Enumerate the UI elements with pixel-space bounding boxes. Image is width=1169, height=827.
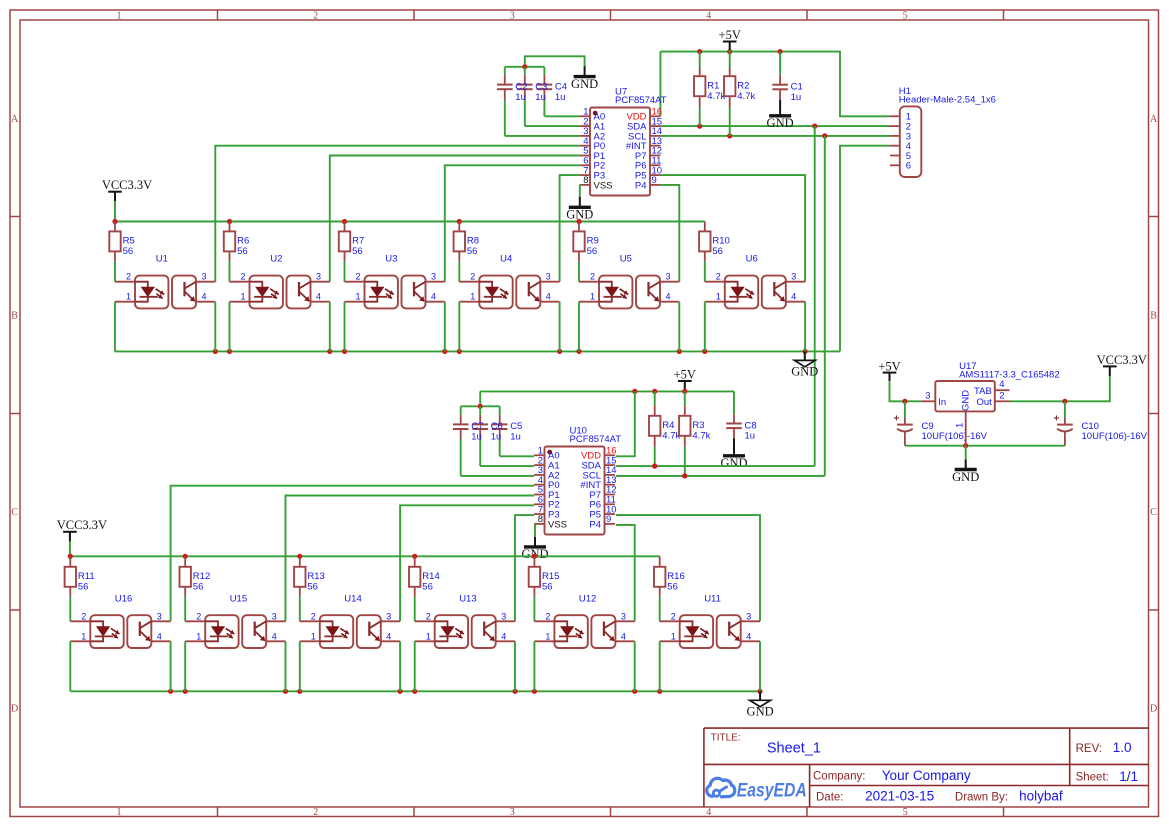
resistor R5 (109, 222, 134, 282)
svg-text:In: In (938, 397, 946, 408)
svg-text:4: 4 (746, 631, 751, 641)
svg-text:A: A (1150, 114, 1158, 125)
resistor R12 (180, 556, 211, 621)
node junction bottom rail2 col6 (657, 689, 662, 694)
wire C7 to A2 U10 (461, 475, 534, 477)
power VCC3.3V U17 (1097, 353, 1147, 376)
svg-text:D: D (1150, 704, 1157, 715)
svg-text:5: 5 (903, 807, 908, 818)
svg-text:+: + (893, 413, 899, 424)
svg-text:1: 1 (545, 631, 550, 641)
svg-text:3: 3 (202, 272, 207, 282)
resistor R1 (694, 52, 726, 127)
svg-text:4: 4 (316, 292, 321, 302)
svg-text:C6: C6 (491, 421, 503, 432)
node junction bottom rail2 emitter4 (512, 689, 517, 694)
svg-text:3: 3 (501, 611, 506, 621)
svg-text:C: C (1150, 507, 1157, 518)
svg-text:2: 2 (470, 272, 475, 282)
transistor U6 optocoupler (705, 254, 805, 309)
svg-text:1.0: 1.0 (1113, 740, 1132, 755)
svg-text:1: 1 (117, 807, 122, 818)
resistor R4 (649, 391, 681, 466)
ground GND under C1 (767, 100, 794, 130)
svg-text:2: 2 (671, 611, 676, 621)
svg-text:R13: R13 (307, 571, 324, 582)
wire U11 cathode to rail (659, 641, 661, 691)
svg-text:1u: 1u (471, 432, 482, 443)
wire U7 VSS to ground (579, 185, 581, 197)
node junction rail R5 (112, 219, 117, 224)
node junction SCL drop (822, 133, 827, 138)
node junction bottom rail2 emitter6 (757, 689, 762, 694)
svg-text:Header-Male-2.54_1x6: Header-Male-2.54_1x6 (899, 95, 996, 106)
svg-text:2: 2 (313, 10, 318, 21)
svg-text:C3: C3 (535, 81, 547, 92)
node junction bottom rail U5 emitter (677, 349, 682, 354)
svg-text:GND: GND (952, 470, 979, 484)
svg-text:10UF(106)-16V: 10UF(106)-16V (922, 431, 988, 442)
svg-text:56: 56 (352, 246, 363, 257)
svg-text:1: 1 (126, 292, 131, 302)
svg-text:3: 3 (746, 611, 751, 621)
resistor R13 (294, 556, 325, 621)
svg-text:1: 1 (716, 292, 721, 302)
wire SDA vertical to lower section (814, 126, 816, 466)
resistor R9 (573, 222, 598, 282)
svg-text:4.7k: 4.7k (707, 91, 725, 102)
wire U10 P2 to opto collector (400, 505, 534, 621)
svg-text:2: 2 (716, 272, 721, 282)
ground GND U7 VSS (566, 197, 593, 222)
resistor R7 (339, 222, 364, 282)
svg-text:3: 3 (316, 272, 321, 282)
node junction R3 bottom (682, 473, 687, 478)
svg-text:U13: U13 (459, 594, 476, 605)
resistor R2 (724, 52, 756, 136)
EasyEDA logo (707, 778, 807, 801)
svg-text:Sheet:: Sheet: (1076, 772, 1109, 784)
wire U6 cathode to rail (704, 302, 706, 352)
transistor U11 optocoupler (660, 594, 760, 649)
svg-text:3: 3 (510, 807, 515, 818)
svg-text:2: 2 (311, 611, 316, 621)
wire U11 emitter to rail (759, 641, 761, 691)
svg-text:R11: R11 (78, 571, 95, 582)
wire U10 P1 to opto collector (286, 496, 535, 622)
node junction bottom rail2 emitter1 (168, 689, 173, 694)
wire U15 cathode to rail (184, 641, 186, 691)
svg-text:U6: U6 (746, 254, 758, 265)
title block (704, 728, 1149, 807)
svg-text:2: 2 (81, 611, 86, 621)
svg-text:3: 3 (666, 272, 671, 282)
svg-text:56: 56 (422, 582, 433, 593)
wire VDD U7 pin16 (659, 52, 661, 117)
svg-text:1: 1 (470, 292, 475, 302)
ground GND row2 rail (747, 691, 774, 718)
svg-text:U2: U2 (270, 254, 282, 265)
node junction R2 top (727, 49, 732, 54)
svg-text:3: 3 (546, 272, 551, 282)
node junction R2 bottom SCL (727, 133, 732, 138)
wire SCL U7 pin14 to H1 pin3 (660, 135, 890, 137)
svg-text:1: 1 (356, 292, 361, 302)
svg-text:2: 2 (196, 611, 201, 621)
wire U10 VSS to ground (533, 525, 536, 537)
node junction bottom rail2 col3 (297, 689, 302, 694)
op-amp U7 PCF8574AT (580, 86, 667, 195)
wire U2 emitter to rail (329, 302, 331, 352)
transistor U12 optocoupler (534, 594, 634, 649)
svg-text:U12: U12 (579, 594, 596, 605)
svg-text:GND: GND (961, 390, 972, 411)
wire U10 P4 to U12 collector (616, 525, 635, 621)
node junction bottom rail col2 (227, 349, 232, 354)
wire SCL vertical to lower section (824, 136, 826, 476)
node junction bottom rail col3 (342, 349, 347, 354)
svg-text:Date:: Date: (816, 791, 844, 803)
transistor U15 optocoupler (185, 594, 285, 649)
svg-text:R7: R7 (352, 236, 364, 247)
svg-text:4.7k: 4.7k (692, 431, 710, 442)
capacitor C7 (453, 406, 469, 476)
ground GND under C8 (720, 439, 747, 471)
wire VCC3.3V rail row1 (115, 221, 705, 223)
svg-text:C7: C7 (471, 421, 483, 432)
svg-text:TITLE:: TITLE: (711, 733, 741, 744)
ground GND row1 rail (791, 351, 818, 378)
capacitor C2 (497, 67, 513, 136)
svg-text:C9: C9 (922, 421, 934, 432)
wire U5 cathode to rail (578, 302, 580, 352)
wire U2 cathode to rail (229, 302, 231, 352)
svg-text:1: 1 (955, 423, 966, 428)
svg-text:Sheet_1: Sheet_1 (767, 741, 821, 757)
svg-text:R16: R16 (667, 571, 684, 582)
wire U7 P5 to U6 collector (660, 175, 805, 282)
wire U1 cathode to rail (114, 302, 116, 352)
wire U14 cathode to rail (299, 641, 301, 691)
svg-text:GND: GND (720, 456, 747, 470)
svg-text:56: 56 (193, 582, 204, 593)
svg-text:Company:: Company: (813, 771, 865, 783)
ground GND U17 (952, 446, 979, 484)
svg-text:2: 2 (241, 272, 246, 282)
svg-text:D: D (11, 704, 18, 715)
wire U13 emitter to rail (514, 641, 516, 691)
svg-text:1u: 1u (791, 92, 802, 103)
svg-text:56: 56 (587, 246, 598, 257)
svg-text:4: 4 (999, 379, 1004, 390)
wire U7 P1 to U2 collector (330, 156, 580, 282)
svg-text:1u: 1u (491, 432, 502, 443)
node junction rail R9 (576, 219, 581, 224)
svg-text:4.7k: 4.7k (737, 91, 755, 102)
node junction rail R13 (297, 554, 302, 559)
svg-text:+5V: +5V (719, 28, 741, 42)
svg-text:REV:: REV: (1076, 743, 1102, 755)
voltage-regulator U17 AMS1117-3.3 (921, 361, 1060, 446)
svg-text:P4: P4 (635, 180, 647, 191)
wire A0 cap tie (505, 66, 545, 68)
transistor U14 optocoupler (300, 594, 400, 649)
svg-text:+: + (1053, 413, 1059, 424)
node junction C1 top (778, 49, 783, 54)
node junction rail R7 (342, 219, 347, 224)
svg-text:R8: R8 (467, 236, 479, 247)
wire SDA U10 pin15 (616, 465, 815, 467)
resistor R8 (454, 222, 479, 282)
svg-text:C: C (11, 507, 18, 518)
svg-text:3: 3 (621, 611, 626, 621)
node junction R3 top (682, 389, 687, 394)
svg-text:R12: R12 (193, 571, 210, 582)
svg-text:holybaf: holybaf (1019, 789, 1063, 804)
capacitor C5 (471, 406, 522, 456)
svg-text:1u: 1u (555, 92, 566, 103)
transistor U1 optocoupler (115, 254, 215, 309)
transistor U4 optocoupler (459, 254, 559, 309)
wire U13 cathode to rail (414, 641, 416, 691)
svg-text:1u: 1u (535, 92, 546, 103)
node junction bottom rail2 col4 (412, 689, 417, 694)
capacitor C1 (772, 52, 802, 103)
svg-text:56: 56 (712, 246, 723, 257)
node junction bottom rail2 col5 (532, 689, 537, 694)
svg-text:PCF8574AT: PCF8574AT (570, 434, 622, 445)
wire U17 ground bus (905, 445, 1065, 447)
svg-text:56: 56 (78, 582, 89, 593)
svg-text:C5: C5 (510, 421, 522, 432)
svg-text:C2: C2 (515, 81, 527, 92)
svg-text:VCC3.3V: VCC3.3V (1097, 353, 1147, 367)
wire cap tie lower (461, 405, 500, 407)
resistor R3 (679, 391, 711, 476)
wire U6 emitter to rail (804, 302, 806, 352)
svg-text:1/1: 1/1 (1119, 769, 1138, 784)
svg-text:3: 3 (386, 611, 391, 621)
svg-text:P4: P4 (589, 519, 601, 530)
wire U7 P2 to U3 collector (445, 165, 580, 281)
wire U3 emitter to rail (444, 302, 446, 352)
node junction cap tie lower (478, 404, 483, 409)
svg-text:Drawn By:: Drawn By: (955, 791, 1008, 803)
node junction bottom rail col4 (457, 349, 462, 354)
wire U1 emitter to rail (214, 302, 216, 352)
wire H1 pin4 to GND rail (840, 146, 890, 352)
svg-text:4: 4 (666, 292, 671, 302)
node junction rail R14 (412, 554, 417, 559)
svg-text:R6: R6 (237, 236, 249, 247)
capacitor C3 (517, 67, 533, 126)
svg-text:1: 1 (671, 631, 676, 641)
svg-text:U1: U1 (156, 254, 168, 265)
node junction C9 top (902, 399, 907, 404)
node junction C10 top (1062, 399, 1067, 404)
wire U15 emitter to rail (285, 641, 287, 691)
power +5V top (719, 28, 741, 51)
wire U7 P4 to U5 collector (660, 185, 679, 282)
svg-text:1: 1 (196, 631, 201, 641)
resistor R10 (699, 222, 730, 282)
wire VCC3.3V rail row2 (70, 555, 659, 557)
svg-text:VSS: VSS (548, 519, 567, 530)
svg-text:2: 2 (356, 272, 361, 282)
capacitor C4 (515, 67, 567, 117)
svg-text:4: 4 (431, 292, 436, 302)
resistor R11 (65, 556, 95, 621)
connector H1 Header-Male-2.54_1x6 (890, 86, 996, 177)
svg-text:3: 3 (431, 272, 436, 282)
svg-text:+5V: +5V (878, 359, 900, 373)
svg-text:B: B (11, 311, 18, 322)
svg-text:U14: U14 (344, 594, 361, 605)
wire SCL U10 pin14 (616, 475, 825, 477)
svg-text:C8: C8 (745, 420, 757, 431)
wire U3 cathode to rail (344, 302, 346, 352)
svg-text:3: 3 (272, 611, 277, 621)
svg-text:10UF(106)-16V: 10UF(106)-16V (1082, 431, 1148, 442)
svg-text:U11: U11 (704, 594, 721, 605)
svg-text:R4: R4 (662, 420, 674, 431)
svg-text:4: 4 (706, 807, 711, 818)
svg-text:1u: 1u (745, 431, 756, 442)
wire U7 P0 to U1 collector (215, 146, 579, 282)
wire C3 to A1 (525, 125, 580, 127)
wire rail to cap tie lower (479, 391, 481, 406)
resistor R14 (409, 556, 440, 621)
node junction R4 top (652, 389, 657, 394)
svg-text:9: 9 (606, 514, 611, 525)
svg-text:8: 8 (538, 514, 543, 525)
svg-text:2: 2 (999, 391, 1004, 402)
node junction bottom rail2 emitter2 (283, 689, 288, 694)
svg-text:8: 8 (583, 175, 588, 186)
wire +5V rail lower (480, 390, 734, 392)
svg-text:3: 3 (925, 391, 930, 402)
svg-text:R9: R9 (587, 236, 599, 247)
wire U10 P3 to U13 collector (515, 515, 534, 621)
svg-text:4: 4 (157, 631, 162, 641)
node junction bottom rail2 col2 (183, 689, 188, 694)
svg-text:TAB: TAB (974, 386, 992, 397)
wire U7 P3 to U4 collector (560, 175, 580, 282)
svg-text:U15: U15 (230, 594, 247, 605)
svg-text:R1: R1 (707, 80, 719, 91)
svg-text:2: 2 (313, 807, 318, 818)
wire U5 emitter to rail (678, 302, 680, 352)
capacitor C6 (472, 406, 488, 466)
svg-text:4: 4 (706, 10, 711, 21)
svg-text:4: 4 (791, 292, 796, 302)
wire +5V to U17 In (890, 382, 921, 402)
wire GND rail row1 (115, 350, 840, 352)
wire cap tie to GND (525, 56, 585, 67)
node junction rail R12 (183, 554, 188, 559)
svg-text:4.7k: 4.7k (662, 431, 680, 442)
svg-text:U16: U16 (115, 594, 132, 605)
svg-text:R2: R2 (737, 80, 749, 91)
svg-text:EasyEDA: EasyEDA (737, 781, 807, 802)
power +5V U17 (878, 359, 900, 381)
svg-text:1: 1 (426, 631, 431, 641)
node junction U17 GND (963, 443, 968, 448)
transistor U3 optocoupler (345, 254, 445, 309)
resistor R6 (224, 222, 249, 282)
ground GND U10 VSS (521, 537, 548, 561)
node junction bottom rail col5 (576, 349, 581, 354)
svg-text:9: 9 (652, 175, 657, 186)
wire +5V rail top (660, 52, 890, 117)
node junction rail R11 (68, 554, 73, 559)
power VCC3.3V row1 (102, 178, 152, 221)
capacitor C9 (893, 401, 987, 445)
wire VDD U10 pin16 (616, 391, 635, 456)
node junction R1 top (697, 49, 702, 54)
svg-text:+5V: +5V (674, 368, 696, 382)
node junction SDA drop (812, 124, 817, 129)
svg-text:3: 3 (791, 272, 796, 282)
node junction bottom rail col6 (702, 349, 707, 354)
svg-text:C10: C10 (1082, 421, 1099, 432)
svg-text:A: A (11, 114, 19, 125)
node junction bottom rail U2 emitter (327, 349, 332, 354)
svg-text:GND: GND (747, 705, 774, 719)
svg-text:C4: C4 (555, 81, 567, 92)
svg-text:1u: 1u (510, 432, 521, 443)
svg-text:R14: R14 (422, 571, 439, 582)
node junction rail R15 (532, 554, 537, 559)
svg-text:2: 2 (545, 611, 550, 621)
wire U17 Out to VCC3.3V (1010, 376, 1110, 402)
svg-text:1: 1 (117, 10, 122, 21)
capacitor C10 (1053, 401, 1147, 445)
svg-text:2021-03-15: 2021-03-15 (865, 789, 934, 804)
svg-text:4: 4 (546, 292, 551, 302)
transistor U16 optocoupler (70, 594, 170, 649)
svg-text:56: 56 (542, 582, 553, 593)
resistor R16 (654, 556, 685, 621)
wire U4 emitter to rail (559, 302, 561, 352)
svg-text:1u: 1u (515, 92, 526, 103)
node junction bottom rail U4 emitter (557, 349, 562, 354)
wire GND rail row2 (70, 690, 760, 692)
svg-text:2: 2 (590, 272, 595, 282)
power +5V lower (674, 368, 696, 392)
wire U10 P0 to opto collector (171, 486, 534, 622)
svg-text:56: 56 (123, 246, 134, 257)
resistor R15 (529, 556, 560, 621)
node junction cap tie (522, 64, 527, 69)
node junction bottom rail U6 emitter (803, 349, 808, 354)
svg-text:PCF8574AT: PCF8574AT (615, 95, 667, 106)
svg-text:6: 6 (906, 161, 911, 172)
op-amp U10 PCF8574AT (534, 425, 621, 534)
wire U4 cathode to rail (458, 302, 460, 352)
transistor U2 optocoupler (230, 254, 330, 309)
wire C6 to A1 U10 (480, 465, 534, 467)
wire U16 cathode to rail (69, 641, 71, 691)
svg-text:AMS1117-3.3_C165482: AMS1117-3.3_C165482 (959, 370, 1060, 381)
svg-text:56: 56 (307, 582, 318, 593)
node junction bottom rail2 emitter5 (632, 689, 637, 694)
svg-text:B: B (1150, 311, 1157, 322)
svg-text:1: 1 (311, 631, 316, 641)
wire U16 emitter to rail (170, 641, 172, 691)
svg-text:5: 5 (903, 10, 908, 21)
svg-text:1: 1 (81, 631, 86, 641)
